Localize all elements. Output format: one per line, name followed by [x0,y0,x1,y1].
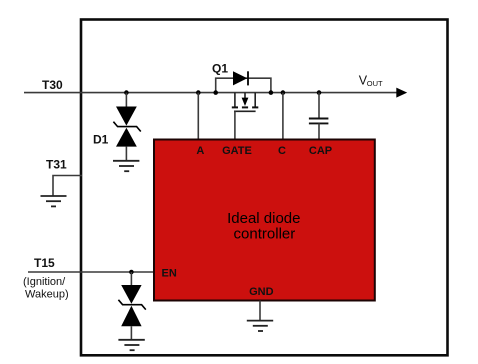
wire CAP bottom [318,123,320,139]
diode D2 (bidirectional TVS on EN) [118,285,145,326]
diode Q1 body diode [233,71,248,85]
svg-text:(Ignition/: (Ignition/ [23,276,66,288]
wire T30 to VOUT [24,92,398,94]
transistor Q1 body arrow [242,98,249,106]
transistor Q1 gate plate [234,110,256,112]
capacitor CAP [309,119,329,124]
node Q1 right junction [269,90,274,95]
wire CAP top [318,93,320,118]
ground GND [247,321,273,331]
svg-text:OUT: OUT [367,79,383,88]
wire GND pin [259,301,261,321]
wire T31 to frame [53,176,82,197]
node T30/D1 junction [124,90,129,95]
svg-text:GND: GND [249,286,274,298]
label (Ignition/Wakeup) [23,276,69,301]
svg-text:D1: D1 [93,133,109,147]
border frame (outer system boundary) [81,20,448,356]
node Q1 left junction [213,90,218,95]
svg-text:CAP: CAP [309,145,332,157]
ground T31 [41,196,67,206]
node CAP junction [317,90,322,95]
svg-text:Wakeup): Wakeup) [25,289,69,301]
wire gate lead [234,111,236,139]
wire pin C [282,93,284,140]
transistor Q1 MOSFET channel [235,93,255,107]
label VOUT [359,74,383,89]
svg-text:Q1: Q1 [212,62,228,76]
node C junction [281,90,286,95]
wire TVS top [130,272,132,285]
wire D1 bottom [125,147,127,161]
wire D1 top [125,93,127,107]
svg-text:controller: controller [234,226,296,243]
svg-text:Ideal diode: Ideal diode [227,210,300,227]
node EN/TVS junction [129,270,134,275]
wire TVS bottom [130,326,132,340]
transistor Q1 channel bars [232,106,258,108]
svg-text:T15: T15 [34,256,55,270]
svg-text:T30: T30 [42,78,63,92]
svg-text:A: A [196,145,204,157]
node A junction [196,90,201,95]
label title [227,210,300,243]
svg-text:EN: EN [162,268,177,280]
ground TVS [118,340,144,350]
wire T15 to EN [28,271,154,273]
diode D1 (bidirectional TVS) [113,107,140,147]
ground D1 [113,161,139,171]
svg-text:GATE: GATE [222,145,252,157]
VOUT arrowhead [396,88,407,98]
wire pin A [197,93,199,140]
op-amp U1 ideal diode controller box [154,140,375,301]
svg-text:C: C [278,145,286,157]
svg-text:T31: T31 [46,158,67,172]
wire Q1 body-diode loop [216,78,271,92]
